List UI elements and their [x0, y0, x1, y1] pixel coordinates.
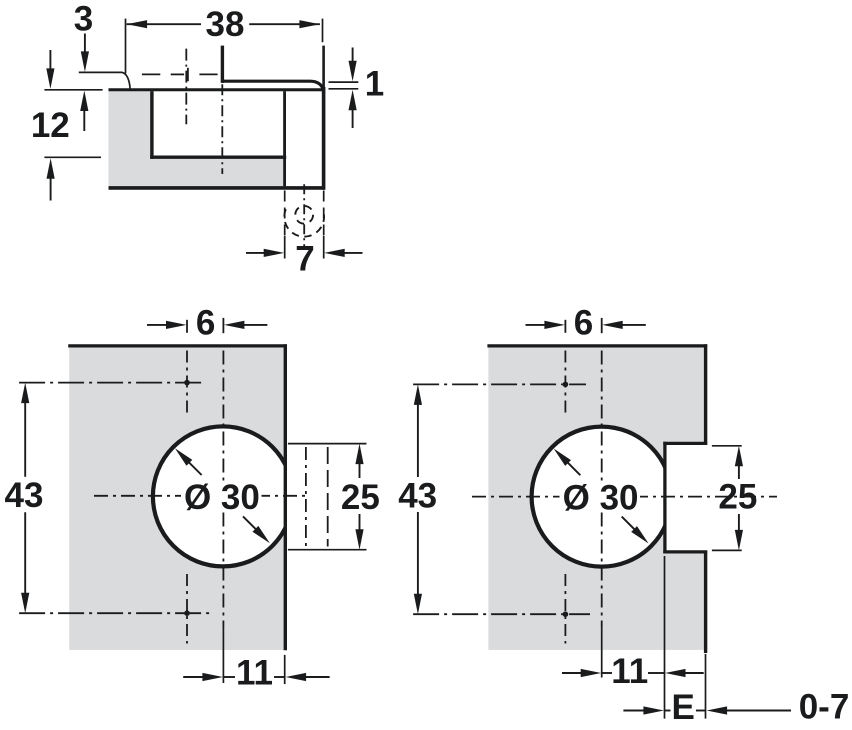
door front edge line with fillet — [79, 72, 130, 89]
svg-text:7: 7 — [295, 240, 314, 279]
dimension E value 0-7 — [707, 688, 850, 727]
left view: panel top edge — [68, 344, 287, 347]
svg-text:3: 3 — [74, 0, 93, 38]
svg-text:11: 11 — [236, 654, 273, 693]
right view: cup hole circle — [532, 427, 672, 567]
right view: horizontal centerline through cup — [472, 496, 777, 498]
right view: dimension 43 — [398, 384, 437, 614]
hinge cup recess left wall — [150, 91, 153, 159]
left view: dimension 43 — [5, 383, 44, 614]
left view: dimension 11 — [183, 654, 329, 693]
right view: notch left edge — [663, 442, 666, 554]
svg-text:1: 1 — [365, 65, 384, 104]
left view: cup hole circle — [153, 426, 293, 566]
dimension 38 — [126, 5, 323, 74]
right view: panel top edge — [487, 344, 707, 347]
right view: panel right edge lower — [704, 551, 707, 654]
right view: door panel with notch (gray) — [488, 344, 708, 650]
svg-text:6: 6 — [574, 304, 593, 343]
left view: screw hole top — [19, 380, 205, 386]
svg-text:43: 43 — [5, 476, 44, 515]
svg-text:E: E — [672, 688, 695, 727]
svg-text:43: 43 — [398, 476, 437, 515]
hinge cup recess bottom — [150, 155, 286, 158]
svg-text:6: 6 — [196, 304, 215, 343]
dimension 7 — [246, 191, 363, 279]
left view: arm silhouette dashed verticals — [306, 447, 328, 547]
right view: screw holes centerline vertical — [564, 320, 566, 644]
drill position dashed circle small — [295, 206, 313, 224]
door panel cross-section (gray) — [109, 90, 326, 190]
svg-text:38: 38 — [206, 5, 245, 44]
panel right edge — [322, 46, 325, 190]
right view: screw hole top — [413, 382, 586, 388]
dimension 3 — [74, 0, 93, 131]
left view: dimension 6 — [147, 304, 267, 343]
svg-text:Ø 30: Ø 30 — [563, 478, 639, 517]
left view: horizontal centerline through cup — [94, 495, 307, 497]
dimension 1 — [329, 48, 385, 129]
svg-text:11: 11 — [611, 652, 648, 691]
drill dashed arc big — [284, 209, 324, 236]
svg-text:25: 25 — [718, 478, 757, 517]
drill centerline vertical — [303, 184, 305, 246]
left view: screw holes centerline vertical — [186, 320, 188, 644]
dimension E — [623, 654, 705, 727]
svg-text:12: 12 — [31, 106, 70, 145]
left view: dimension 25 — [288, 444, 380, 550]
left view: screw hole bottom — [19, 610, 212, 616]
hinge arm wall — [221, 46, 224, 83]
hinge flange top with fillet — [222, 81, 323, 89]
right view: dimension 11 — [562, 556, 704, 719]
svg-text:0-7: 0-7 — [799, 688, 850, 727]
right view: panel right edge upper — [704, 344, 707, 445]
panel top surface line — [109, 88, 323, 91]
centerline vertical x186 — [185, 49, 187, 125]
dimension 12 — [31, 50, 103, 201]
centerline horizontal y74 — [142, 68, 218, 81]
svg-text:Ø 30: Ø 30 — [184, 478, 260, 517]
right view: screw hole bottom — [413, 611, 590, 617]
right view: cup centerline vertical — [601, 318, 603, 678]
right view: dimension 25 — [712, 446, 757, 551]
left view: cup centerline vertical — [222, 318, 224, 683]
drill slot left wall — [283, 91, 286, 186]
left view: door panel (gray) — [69, 344, 287, 650]
right view: notch top edge — [663, 442, 707, 445]
right view: notch bottom edge — [663, 550, 707, 553]
centerline vertical x222 — [221, 84, 223, 174]
left view: panel right edge — [284, 344, 287, 650]
svg-text:25: 25 — [341, 478, 380, 517]
right view: dimension 6 — [526, 304, 646, 343]
right view: diameter label and arrows — [554, 449, 649, 544]
left view: diameter label and arrows — [175, 448, 270, 543]
panel bottom line — [109, 186, 325, 190]
